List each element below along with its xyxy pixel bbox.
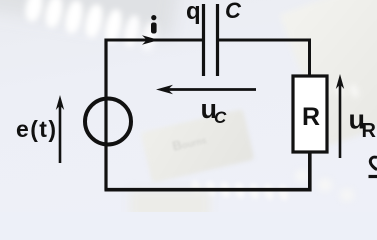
svg-text:R: R bbox=[362, 120, 377, 142]
capacitor C plate right bbox=[216, 4, 219, 76]
right-mid faint pins bbox=[290, 28, 377, 121]
background photo imitation (faded IC chips) bbox=[0, 0, 186, 39]
svg-text:R: R bbox=[302, 103, 320, 131]
centre chip body bbox=[140, 109, 254, 183]
e(t) reference arrow bbox=[59, 105, 62, 163]
capacitor C plate left bbox=[202, 4, 205, 76]
u_C reference arrow bbox=[166, 88, 256, 91]
wire: left branch bbox=[104, 39, 107, 191]
svg-text:q: q bbox=[186, 0, 201, 25]
top-right chip bbox=[280, 0, 377, 146]
centre chip pin bumps bbox=[186, 141, 294, 210]
u_R reference arrow bbox=[339, 84, 342, 158]
label i bbox=[151, 23, 157, 34]
current arrowhead (i) bbox=[142, 35, 159, 45]
wire: top-right segment (capacitor to resistor) bbox=[219, 40, 310, 76]
bottom-right faint blobs bbox=[290, 165, 377, 215]
wire: bottom segment bbox=[105, 152, 310, 190]
voltage source E circle bbox=[85, 99, 131, 145]
wire: top-left segment (source to capacitor) bbox=[106, 39, 202, 42]
resistor R body bbox=[293, 76, 327, 152]
svg-text:C: C bbox=[214, 108, 227, 127]
svg-text:C: C bbox=[225, 0, 242, 23]
top-left chip pins bbox=[23, 0, 45, 23]
partial equation glyph clipped at right edge bbox=[370, 157, 377, 169]
svg-text:e(t): e(t) bbox=[16, 116, 56, 142]
